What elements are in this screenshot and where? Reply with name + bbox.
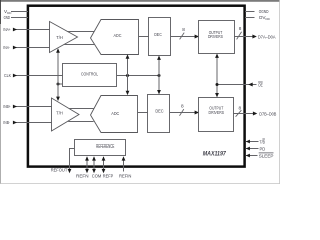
svg-text:REFOUT: REFOUT	[51, 168, 68, 173]
svg-text:REFN: REFN	[76, 174, 89, 179]
svg-text:INA+: INA+	[3, 27, 11, 32]
svg-text:8: 8	[239, 26, 242, 31]
svg-text:CLK: CLK	[4, 73, 12, 78]
svg-text:T/H: T/H	[56, 35, 63, 40]
svg-text:OVDD: OVDD	[259, 15, 271, 21]
svg-text:D7B–D0B: D7B–D0B	[259, 111, 276, 116]
svg-text:8: 8	[238, 105, 241, 110]
svg-text:DRIVERS: DRIVERS	[208, 34, 223, 39]
svg-text:OE: OE	[258, 82, 263, 87]
svg-text:DEC: DEC	[154, 32, 162, 37]
svg-text:REFIN: REFIN	[119, 174, 132, 179]
svg-text:DEC: DEC	[155, 109, 164, 114]
svg-text:MAX1197: MAX1197	[203, 150, 227, 157]
svg-text:REFP: REFP	[103, 174, 114, 179]
svg-text:REFERENCE: REFERENCE	[96, 144, 115, 150]
svg-text:PD: PD	[260, 146, 266, 151]
svg-text:INB-: INB-	[3, 120, 10, 125]
svg-text:GND: GND	[4, 15, 11, 20]
svg-text:DRIVERS: DRIVERS	[209, 110, 225, 115]
svg-text:T/H: T/H	[56, 110, 62, 115]
svg-text:INB+: INB+	[3, 104, 11, 109]
svg-text:D7A–D0A: D7A–D0A	[258, 34, 276, 39]
svg-text:8: 8	[182, 27, 185, 32]
svg-text:T/B: T/B	[260, 139, 265, 144]
svg-text:ADC: ADC	[111, 111, 120, 116]
svg-text:VDD: VDD	[4, 9, 12, 15]
svg-text:OGND: OGND	[259, 9, 269, 14]
svg-text:COM: COM	[92, 174, 102, 179]
svg-text:ADC: ADC	[114, 33, 123, 38]
svg-text:SLEEP: SLEEP	[259, 153, 274, 158]
svg-text:CONTROL: CONTROL	[81, 71, 98, 76]
svg-text:INA-: INA-	[3, 45, 10, 50]
svg-text:8: 8	[181, 103, 184, 108]
